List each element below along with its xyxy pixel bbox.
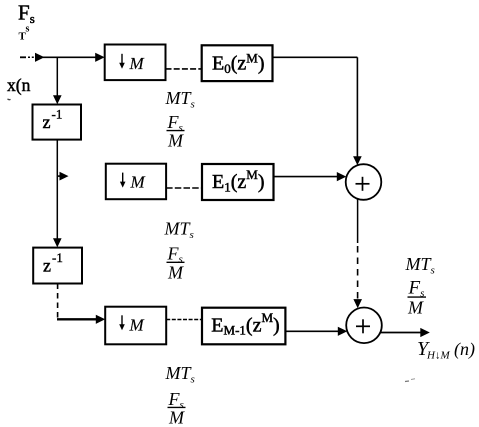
filter block E0 (202, 45, 273, 81)
svg-text:z: z (43, 256, 51, 276)
svg-text:MTs: MTs (165, 88, 195, 111)
svg-text:M: M (129, 316, 145, 335)
filter block EM-1 (202, 308, 285, 345)
wire E0 output to corner (273, 56, 358, 58)
wire junction to downsampler 1 (95, 53, 105, 62)
svg-text:MTs: MTs (165, 363, 195, 386)
wire input horizontal (20, 56, 26, 58)
delay block z-1 (bottom) (33, 248, 82, 284)
svg-text:-1: -1 (52, 107, 63, 122)
svg-text:z: z (43, 112, 51, 132)
svg-text:M: M (167, 262, 184, 282)
svg-text:x(n: x(n (7, 75, 31, 95)
svg-text:M: M (130, 173, 146, 192)
svg-text:M: M (167, 131, 184, 151)
svg-text:T: T (19, 31, 27, 43)
wire dashed downsampler2 to E1 (166, 187, 202, 189)
adder 2 (346, 308, 382, 344)
svg-text:H↓M: H↓M (426, 350, 450, 362)
svg-text:M: M (407, 298, 424, 318)
svg-text:M: M (168, 408, 185, 427)
noise marks bottom right (405, 380, 409, 383)
downsampler M block 3 (105, 307, 166, 345)
svg-text:M: M (129, 54, 145, 73)
svg-text:MTs: MTs (164, 219, 194, 242)
filter block E1 (202, 164, 274, 200)
delay block z-1 (top) (33, 105, 82, 140)
wire dashed vertical below z-1 bottom (57, 284, 59, 319)
wire vertical down to adder 1 (356, 57, 358, 158)
adder 1 (346, 164, 382, 200)
svg-text:s: s (26, 24, 30, 35)
noise tick below x(n (8, 98, 11, 101)
wire adder1 down dashed to adder2 (357, 246, 359, 300)
wire dashed downsampler1 to E0 (166, 68, 202, 70)
svg-text:MTs: MTs (405, 254, 435, 277)
wire E1 output to adder 1 (274, 176, 340, 178)
wire dotted downsampler3 to EM-1 (166, 319, 202, 321)
wire EM-1 output to adder 2 (285, 330, 340, 332)
svg-text:-1: -1 (52, 250, 63, 265)
wire horizontal to downsampler 3 (57, 318, 98, 320)
wire tap arrow to downsampler 2 (57, 175, 61, 177)
wire adder1 down solid (357, 199, 359, 243)
wire trunk vertical segment 1 (56, 57, 58, 97)
svg-text:(n): (n) (454, 339, 475, 360)
downsampler M block 1 (105, 45, 166, 81)
downsampler M block 2 (106, 164, 166, 200)
wire trunk vertical segment 2 (56, 140, 58, 240)
wire output (381, 332, 423, 334)
